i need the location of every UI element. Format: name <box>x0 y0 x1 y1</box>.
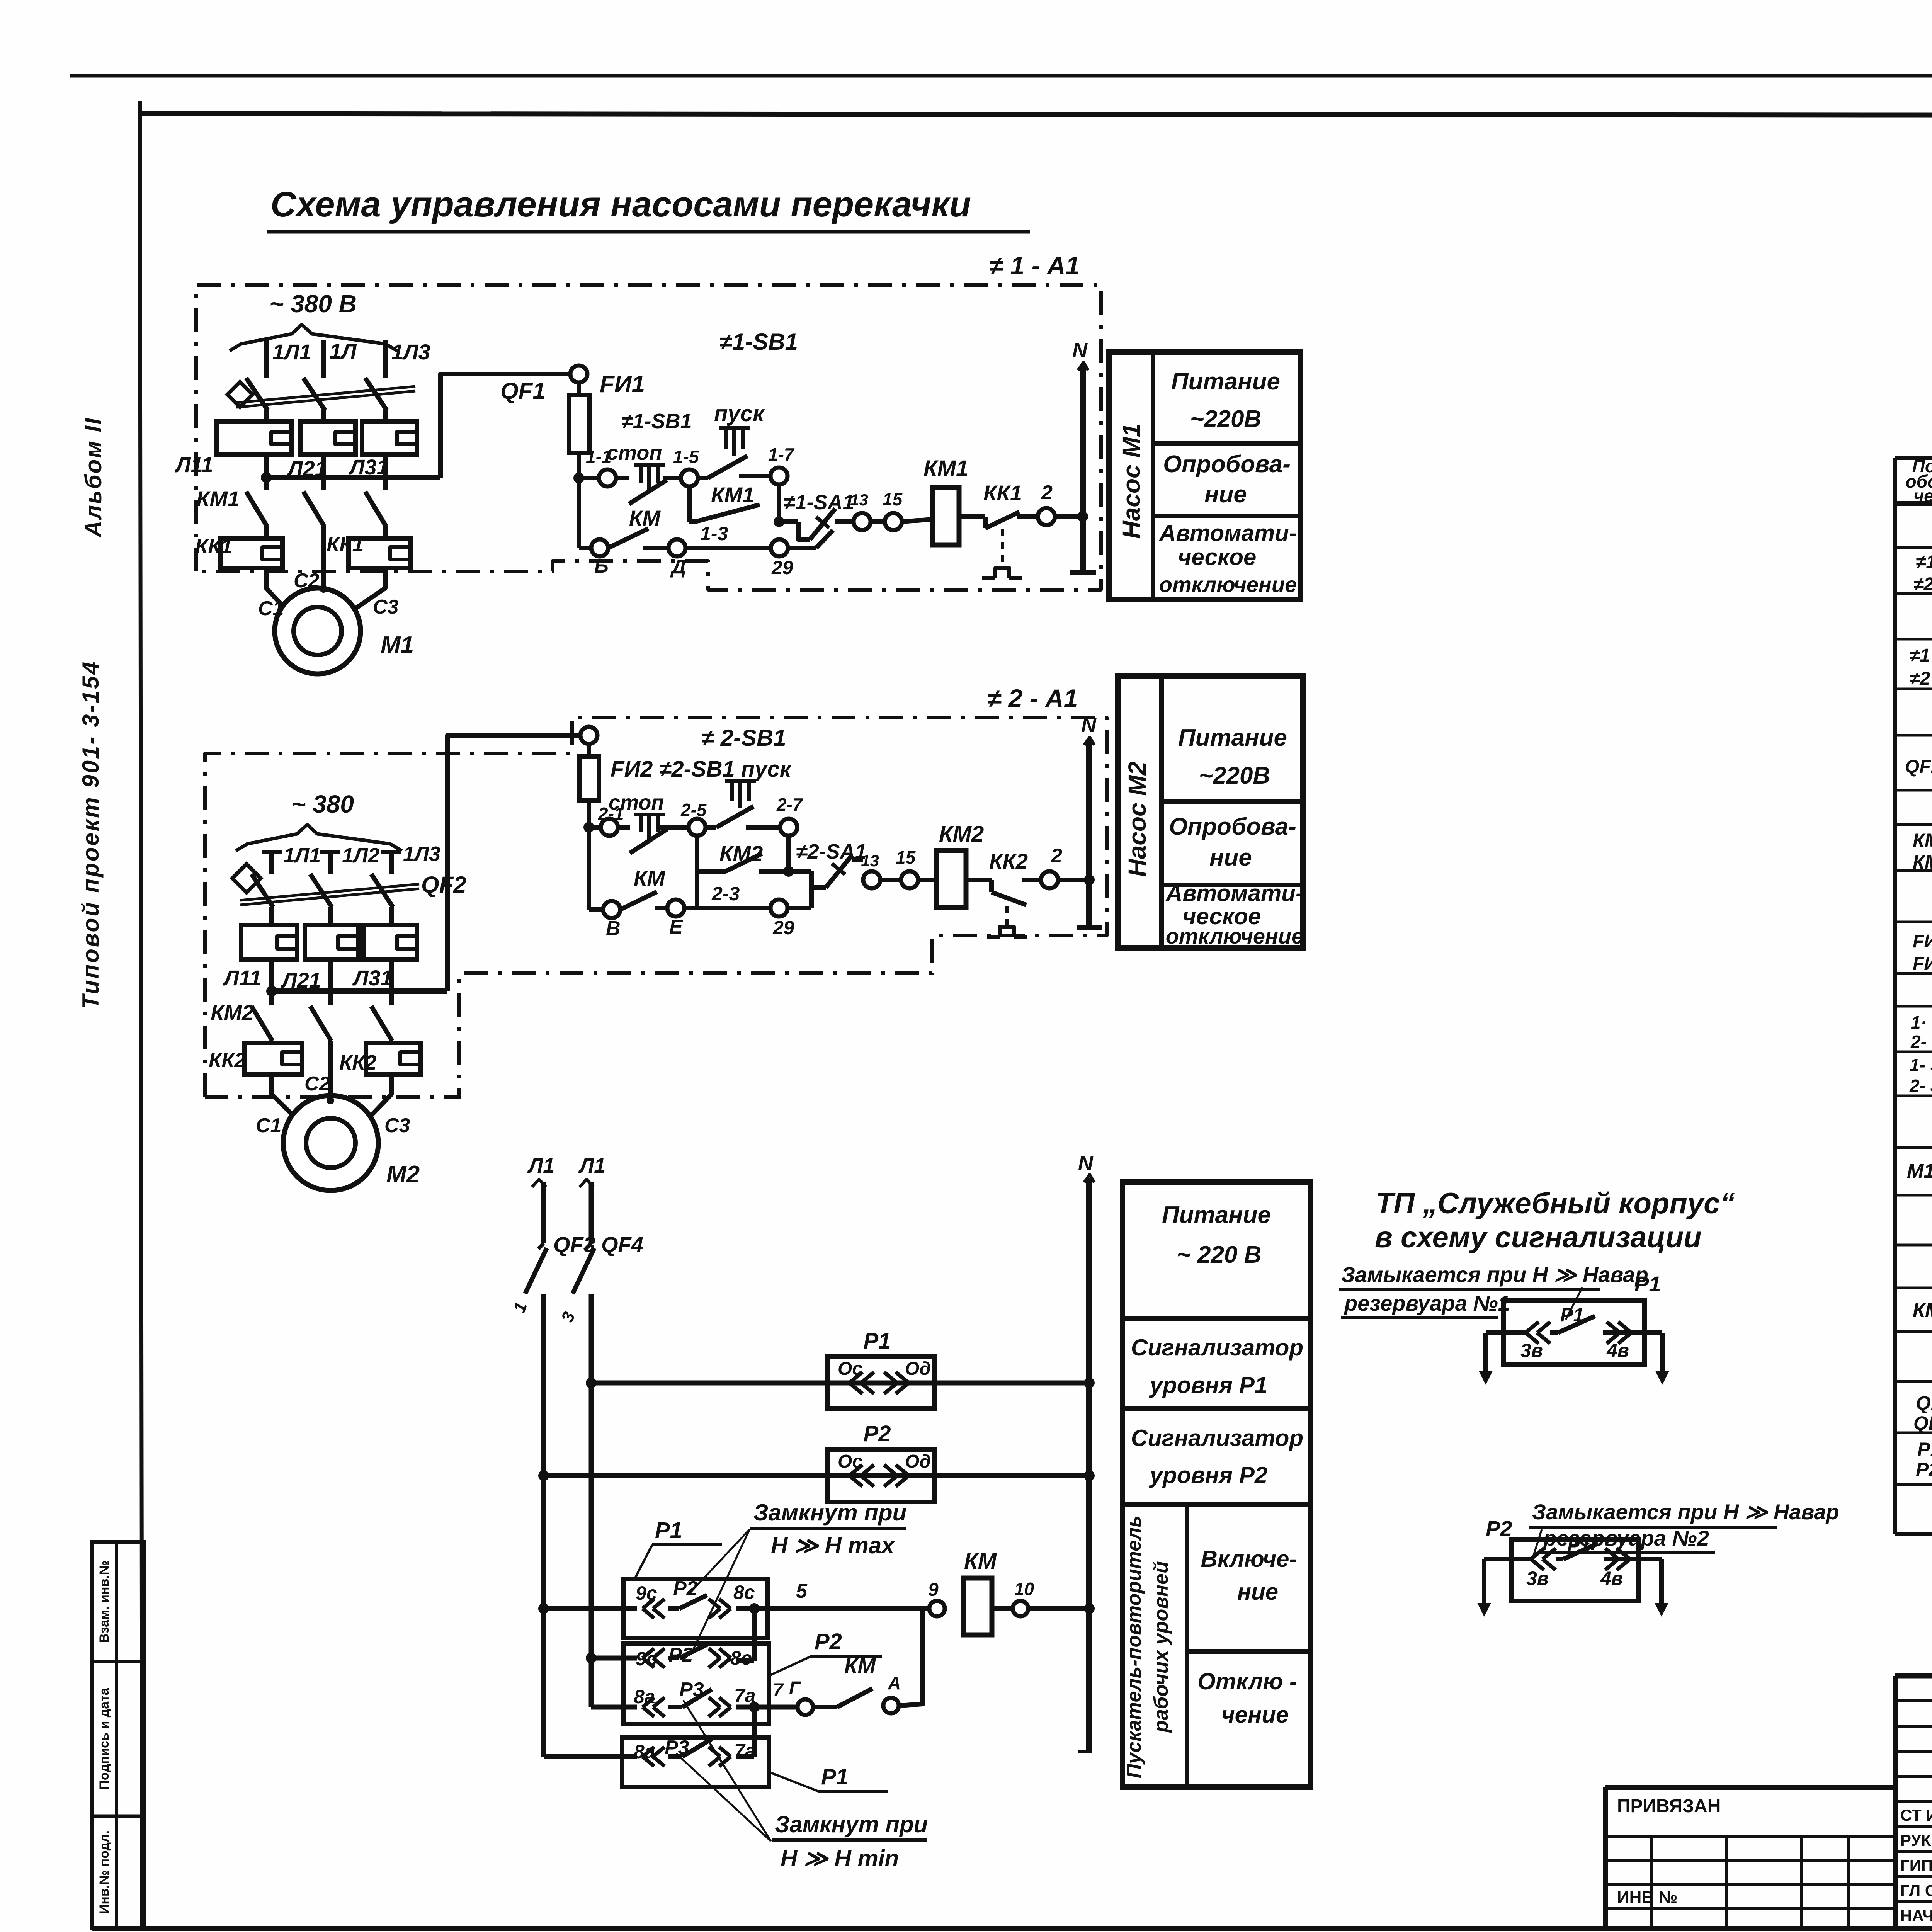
svg-text:уровня Р1: уровня Р1 <box>1149 1372 1268 1398</box>
svg-text:≠2·А1: ≠2·А1 <box>1910 668 1932 689</box>
svg-text:QF4: QF4 <box>1913 1412 1932 1434</box>
cabinet boundary #2-A1 <box>205 718 1107 1097</box>
svg-text:2-3: 2-3 <box>711 883 740 905</box>
svg-text:Од: Од <box>905 1359 931 1379</box>
svg-text:КМ2: КМ2 <box>211 1000 254 1025</box>
svg-text:Р2: Р2 <box>864 1421 891 1446</box>
svg-text:1Л1: 1Л1 <box>283 844 321 867</box>
relay contact box R1 (9c P2 8c) <box>623 1579 768 1638</box>
svg-text:в схему сигнализации: в схему сигнализации <box>1375 1221 1702 1254</box>
svg-text:1-5: 1-5 <box>673 447 699 467</box>
svg-text:Замкнут при: Замкнут при <box>775 1811 928 1837</box>
QF2 release box L1 <box>241 925 297 960</box>
svg-text:Взам. инв.№: Взам. инв.№ <box>97 1560 112 1643</box>
svg-text:А: А <box>888 1673 901 1693</box>
node G <box>798 1699 813 1715</box>
svg-text:FИ2 ≠2-SВ1 пуск: FИ2 ≠2-SВ1 пуск <box>611 757 792 782</box>
svg-text:КМ: КМ <box>964 1549 997 1574</box>
inner frame top line <box>141 114 1932 116</box>
svg-text:~220В: ~220В <box>1199 762 1270 789</box>
svg-text:чение: чение <box>1221 1702 1289 1728</box>
svg-text:≠ 2-SВ1: ≠ 2-SВ1 <box>701 725 786 751</box>
svg-text:рабочих уровней: рабочих уровней <box>1150 1561 1172 1733</box>
svg-text:1Л: 1Л <box>330 339 357 363</box>
wire phase to bus <box>383 455 388 479</box>
left extension box Privyazan <box>1605 1785 1895 1790</box>
control tap riser (1) <box>440 374 570 478</box>
svg-text:ИНВ №: ИНВ № <box>1617 1888 1677 1907</box>
svg-text:КК1: КК1 <box>983 481 1022 505</box>
phase wire to bus (2) <box>389 960 394 992</box>
svg-text:М1, М2: М1, М2 <box>1907 1160 1932 1182</box>
bus to control tap (2) <box>272 988 447 994</box>
svg-text:≠2 ,: ≠2 , <box>1913 574 1932 595</box>
svg-text:КК2: КК2 <box>989 849 1028 873</box>
svg-text:Пускатель-повторитель: Пускатель-повторитель <box>1123 1515 1145 1778</box>
wire L1 to motor <box>266 568 288 612</box>
svg-text:~ 380 В: ~ 380 В <box>269 290 357 318</box>
svg-text:29: 29 <box>771 557 793 578</box>
svg-text:1-3: 1-3 <box>700 523 728 544</box>
svg-text:15: 15 <box>883 489 903 509</box>
sheet bottom border <box>92 1926 1932 1931</box>
svg-text:Автомати-: Автомати- <box>1165 880 1303 906</box>
svg-text:Опробова-: Опробова- <box>1163 451 1291 478</box>
svg-text:N: N <box>1081 714 1097 737</box>
svg-text:Р1: Р1 <box>1634 1272 1661 1296</box>
svg-text:ческое: ческое <box>1178 544 1257 570</box>
svg-text:≠1-SА1: ≠1-SА1 <box>784 491 854 514</box>
bypass contact KM row (1) <box>577 478 581 548</box>
svg-text:QF4: QF4 <box>601 1232 643 1257</box>
svg-text:~220В: ~220В <box>1190 406 1261 432</box>
svg-text:Б: Б <box>594 555 609 577</box>
svg-text:2: 2 <box>1041 481 1053 504</box>
svg-text:НАЧ ОТД: НАЧ ОТД <box>1900 1906 1932 1925</box>
svg-text:Замкнут при: Замкнут при <box>753 1500 906 1526</box>
svg-text:4в: 4в <box>1606 1340 1629 1361</box>
start button SB1 contact <box>719 426 750 430</box>
svg-text:Р2: Р2 <box>1486 1516 1512 1541</box>
svg-text:РУК ГР: РУК ГР <box>1900 1831 1932 1849</box>
svg-text:ПРИВЯЗАН: ПРИВЯЗАН <box>1617 1796 1721 1816</box>
phase wire to bus (2) <box>269 960 274 992</box>
svg-text:Альбом II: Альбом II <box>80 417 106 538</box>
svg-text:Р1: Р1 <box>864 1328 891 1354</box>
feeder 2-1L1 <box>262 850 282 854</box>
svg-text:1Л3: 1Л3 <box>403 842 440 866</box>
level sensor row P2 <box>544 1473 1089 1478</box>
svg-text:Н ≫ Н min: Н ≫ Н min <box>781 1845 899 1871</box>
bus to control tap (1) <box>266 475 440 480</box>
svg-text:QF3: QF3 <box>1916 1392 1932 1414</box>
svg-text:Опробова-: Опробова- <box>1169 813 1296 840</box>
QF2 release box L2 <box>305 925 358 960</box>
svg-text:резервуара №1: резервуара №1 <box>1344 1291 1510 1315</box>
svg-text:М2: М2 <box>386 1161 420 1188</box>
row D wires <box>544 1754 637 1759</box>
svg-text:КМ2: КМ2 <box>939 821 984 847</box>
svg-text:отключение: отключение <box>1166 924 1303 948</box>
svg-text:1- SА1: 1- SА1 <box>1910 1055 1932 1075</box>
svg-text:Л11: Л11 <box>223 966 262 990</box>
svg-text:~ 220 В: ~ 220 В <box>1177 1242 1262 1268</box>
svg-text:ГЛ СПЕЦ: ГЛ СПЕЦ <box>1900 1881 1932 1900</box>
svg-text:2-7: 2-7 <box>776 794 803 815</box>
svg-text:1-1: 1-1 <box>586 447 611 467</box>
svg-text:Автомати-: Автомати- <box>1158 520 1297 546</box>
svg-text:13: 13 <box>850 491 868 509</box>
svg-text:9: 9 <box>928 1580 939 1600</box>
feeder 2-1L2 <box>320 850 340 854</box>
phase wire to bus (2) <box>328 960 333 992</box>
svg-text:Л11: Л11 <box>174 452 213 477</box>
svg-text:КМ1: КМ1 <box>923 456 968 481</box>
svg-text:Г: Г <box>789 1678 801 1699</box>
svg-text:Р1: Р1 <box>821 1764 849 1789</box>
svg-text:ние: ние <box>1204 481 1247 508</box>
svg-text:Е: Е <box>669 916 683 938</box>
bottom annotation box <box>1122 1182 1311 1787</box>
feeder 1L3 <box>383 340 388 366</box>
svg-text:КМ1: КМ1 <box>196 486 240 511</box>
wire phase to bus <box>321 455 326 479</box>
svg-text:≠1-SВ1: ≠1-SВ1 <box>719 329 798 355</box>
relay contact box R2 (two rows) <box>623 1644 769 1724</box>
svg-text:Насос М1: Насос М1 <box>1117 423 1145 539</box>
svg-text:Л1: Л1 <box>527 1154 554 1177</box>
pump M1 annotation box <box>1109 352 1300 599</box>
svg-text:QF2: QF2 <box>421 872 466 898</box>
svg-text:КМ1: КМ1 <box>1913 830 1932 851</box>
svg-text:~ 380: ~ 380 <box>291 790 354 818</box>
wire L2 to motor <box>321 526 326 589</box>
svg-text:FИ2: FИ2 <box>1913 954 1932 974</box>
svg-text:чения: чения <box>1913 486 1932 506</box>
wire 2-L2 to motor <box>328 1041 333 1100</box>
svg-text:N: N <box>1078 1151 1094 1175</box>
svg-text:КМ1: КМ1 <box>711 483 754 507</box>
svg-text:8с: 8с <box>733 1582 755 1603</box>
svg-text:Инв.№ подл.: Инв.№ подл. <box>97 1830 112 1914</box>
bypass contact KM row (2) <box>587 827 591 910</box>
fuse FU2 terminal <box>580 727 597 744</box>
QF1 release box L2 <box>300 422 355 455</box>
node A <box>883 1698 899 1713</box>
svg-text:КМ: КМ <box>1913 1299 1932 1321</box>
svg-text:8с: 8с <box>730 1647 752 1669</box>
svg-text:ние: ние <box>1237 1579 1278 1605</box>
row node5 KM <box>544 1606 637 1611</box>
svg-text:С1: С1 <box>258 597 284 620</box>
wire phase to bus <box>264 455 269 479</box>
svg-text:7: 7 <box>773 1680 784 1701</box>
QF2 release box L3 <box>363 925 417 960</box>
svg-text:10: 10 <box>1014 1579 1034 1599</box>
svg-text:1· SB1: 1· SB1 <box>1911 1012 1932 1032</box>
svg-text:13: 13 <box>861 852 879 870</box>
circuit breaker QF1 <box>264 366 269 378</box>
svg-text:Питание: Питание <box>1178 724 1287 751</box>
feeder 2-1L3 <box>381 850 401 854</box>
svg-text:QF1: QF1 <box>500 378 546 404</box>
sheet outer top edge <box>70 74 1932 78</box>
svg-text:Р2: Р2 <box>1916 1459 1932 1480</box>
bottom-left stamp box <box>92 1542 145 1929</box>
svg-text:Р2: Р2 <box>673 1577 698 1600</box>
svg-text:≠1-SВ1: ≠1-SВ1 <box>621 410 692 433</box>
svg-text:1Л3: 1Л3 <box>391 340 430 364</box>
svg-text:Р1: Р1 <box>1567 1536 1590 1556</box>
component table frame <box>1893 458 1897 1534</box>
svg-text:Насос М2: Насос М2 <box>1123 762 1151 877</box>
fuse FU2 <box>587 744 591 756</box>
svg-text:ТП „Служебный корпус“: ТП „Служебный корпус“ <box>1376 1187 1735 1220</box>
svg-text:СТ ИНЖ: СТ ИНЖ <box>1900 1806 1932 1824</box>
svg-text:Типовой проект 901- 3-154: Типовой проект 901- 3-154 <box>78 660 104 1009</box>
svg-text:Н ≫ Н mах: Н ≫ Н mах <box>771 1532 895 1558</box>
svg-text:Питание: Питание <box>1171 368 1280 395</box>
svg-text:4в: 4в <box>1600 1568 1623 1589</box>
circuit breaker QF2 <box>269 864 274 874</box>
level sensor row P1 <box>591 1381 1089 1386</box>
stop button SB2 contact <box>634 813 665 816</box>
svg-text:1-7: 1-7 <box>768 444 795 464</box>
QF1 release box L1 <box>216 422 291 455</box>
svg-text:≠1 ј: ≠1 ј <box>1916 552 1932 572</box>
svg-text:С2: С2 <box>304 1073 330 1095</box>
svg-text:Замыкается при Н ≫ Навар: Замыкается при Н ≫ Навар <box>1341 1262 1648 1287</box>
relay contact box R3 (8a P3 7a) <box>622 1738 769 1787</box>
svg-text:Включе-: Включе- <box>1201 1546 1297 1572</box>
svg-text:1Л2: 1Л2 <box>342 844 379 867</box>
wire 2-L3 to motor <box>366 1074 391 1121</box>
feeder 1L1 <box>264 340 269 366</box>
svg-text:Сигнализатор: Сигнализатор <box>1131 1335 1303 1361</box>
svg-text:С3: С3 <box>384 1114 410 1137</box>
svg-text:Сигнализатор: Сигнализатор <box>1131 1425 1303 1451</box>
feeder 1L2 <box>321 340 326 366</box>
svg-text:отключение: отключение <box>1159 572 1297 597</box>
wire 2-L1 to motor <box>272 1074 298 1120</box>
svg-text:Р2: Р2 <box>815 1629 842 1654</box>
svg-text:2- SА1: 2- SА1 <box>1909 1076 1932 1096</box>
svg-text:FИ1: FИ1 <box>600 371 645 398</box>
svg-text:Р1: Р1 <box>655 1518 682 1543</box>
inner frame left border <box>140 101 142 1928</box>
svg-text:стоп: стоп <box>607 441 662 464</box>
start button SB2 contact <box>725 779 756 783</box>
svg-text:Л31: Л31 <box>352 966 393 990</box>
wire L3 to motor <box>350 568 385 612</box>
svg-text:уровня Р2: уровня Р2 <box>1149 1462 1268 1488</box>
svg-text:пуск: пуск <box>714 401 765 426</box>
svg-text:15: 15 <box>896 847 916 867</box>
svg-text:КК2: КК2 <box>209 1049 246 1072</box>
svg-text:КМ2: КМ2 <box>1913 851 1932 873</box>
svg-text:2-5: 2-5 <box>680 800 707 820</box>
svg-text:≠ 1 - А1: ≠ 1 - А1 <box>989 251 1080 280</box>
svg-text:≠1·А1: ≠1·А1 <box>1910 645 1932 666</box>
svg-text:С1: С1 <box>256 1114 281 1137</box>
svg-text:QF1, QF2: QF1, QF2 <box>1905 757 1932 777</box>
motor M2 <box>283 1095 378 1190</box>
svg-text:FИ1: FИ1 <box>1913 931 1932 952</box>
signal contact box 2 <box>1511 1540 1638 1601</box>
svg-text:Од: Од <box>905 1451 931 1472</box>
signal contact box 1 <box>1503 1301 1645 1365</box>
svg-text:N: N <box>1072 339 1088 362</box>
pump M2 annotation box <box>1118 676 1303 948</box>
title block frame <box>1895 1673 1932 1679</box>
svg-text:С3: С3 <box>373 596 399 618</box>
svg-text:КМ: КМ <box>634 866 665 890</box>
fuse FU1 <box>577 383 581 395</box>
svg-text:Схема управления насосами п: Схема управления насосами перекачки <box>270 185 971 224</box>
svg-text:2: 2 <box>1051 845 1062 867</box>
svg-text:КМ: КМ <box>629 506 661 530</box>
row B wires <box>591 1656 637 1661</box>
svg-text:М1: М1 <box>381 632 414 658</box>
svg-text:В: В <box>606 917 621 940</box>
svg-text:Ос: Ос <box>838 1451 862 1472</box>
svg-text:С2: С2 <box>294 570 320 592</box>
QF1 release box L3 <box>362 422 417 455</box>
svg-text:ние: ние <box>1209 844 1252 871</box>
svg-text:ГИП: ГИП <box>1900 1856 1932 1874</box>
svg-text:Питание: Питание <box>1162 1202 1271 1228</box>
stop button SB1 contact <box>634 463 665 467</box>
svg-text:Замыкается при Н ≫ Навар: Замыкается при Н ≫ Навар <box>1532 1500 1839 1524</box>
fuse FU1 terminal <box>570 366 587 383</box>
cabinet boundary #1-A1 <box>196 285 1101 590</box>
svg-text:29: 29 <box>772 917 794 939</box>
svg-text:Р1: Р1 <box>1917 1439 1932 1460</box>
control tap riser (2) <box>447 735 580 991</box>
svg-text:≠ 2 - А1: ≠ 2 - А1 <box>987 684 1078 713</box>
svg-text:КК2: КК2 <box>339 1051 376 1074</box>
svg-text:2- SВ1: 2- SВ1 <box>1910 1032 1932 1052</box>
svg-text:Д: Д <box>670 556 686 578</box>
brace 380V (1) <box>230 325 397 351</box>
svg-text:1Л1: 1Л1 <box>272 340 311 364</box>
brace 380 (2) <box>236 825 402 851</box>
svg-text:Отклю -: Отклю - <box>1197 1668 1297 1694</box>
svg-text:3в: 3в <box>1520 1340 1543 1361</box>
motor M1 <box>275 588 361 674</box>
svg-text:5: 5 <box>796 1580 808 1602</box>
svg-text:Л1: Л1 <box>578 1154 605 1177</box>
row C wires <box>591 1705 637 1710</box>
svg-text:Ос: Ос <box>838 1359 862 1379</box>
svg-text:Подпись и дата: Подпись и дата <box>97 1687 112 1790</box>
svg-text:3в: 3в <box>1526 1568 1549 1589</box>
